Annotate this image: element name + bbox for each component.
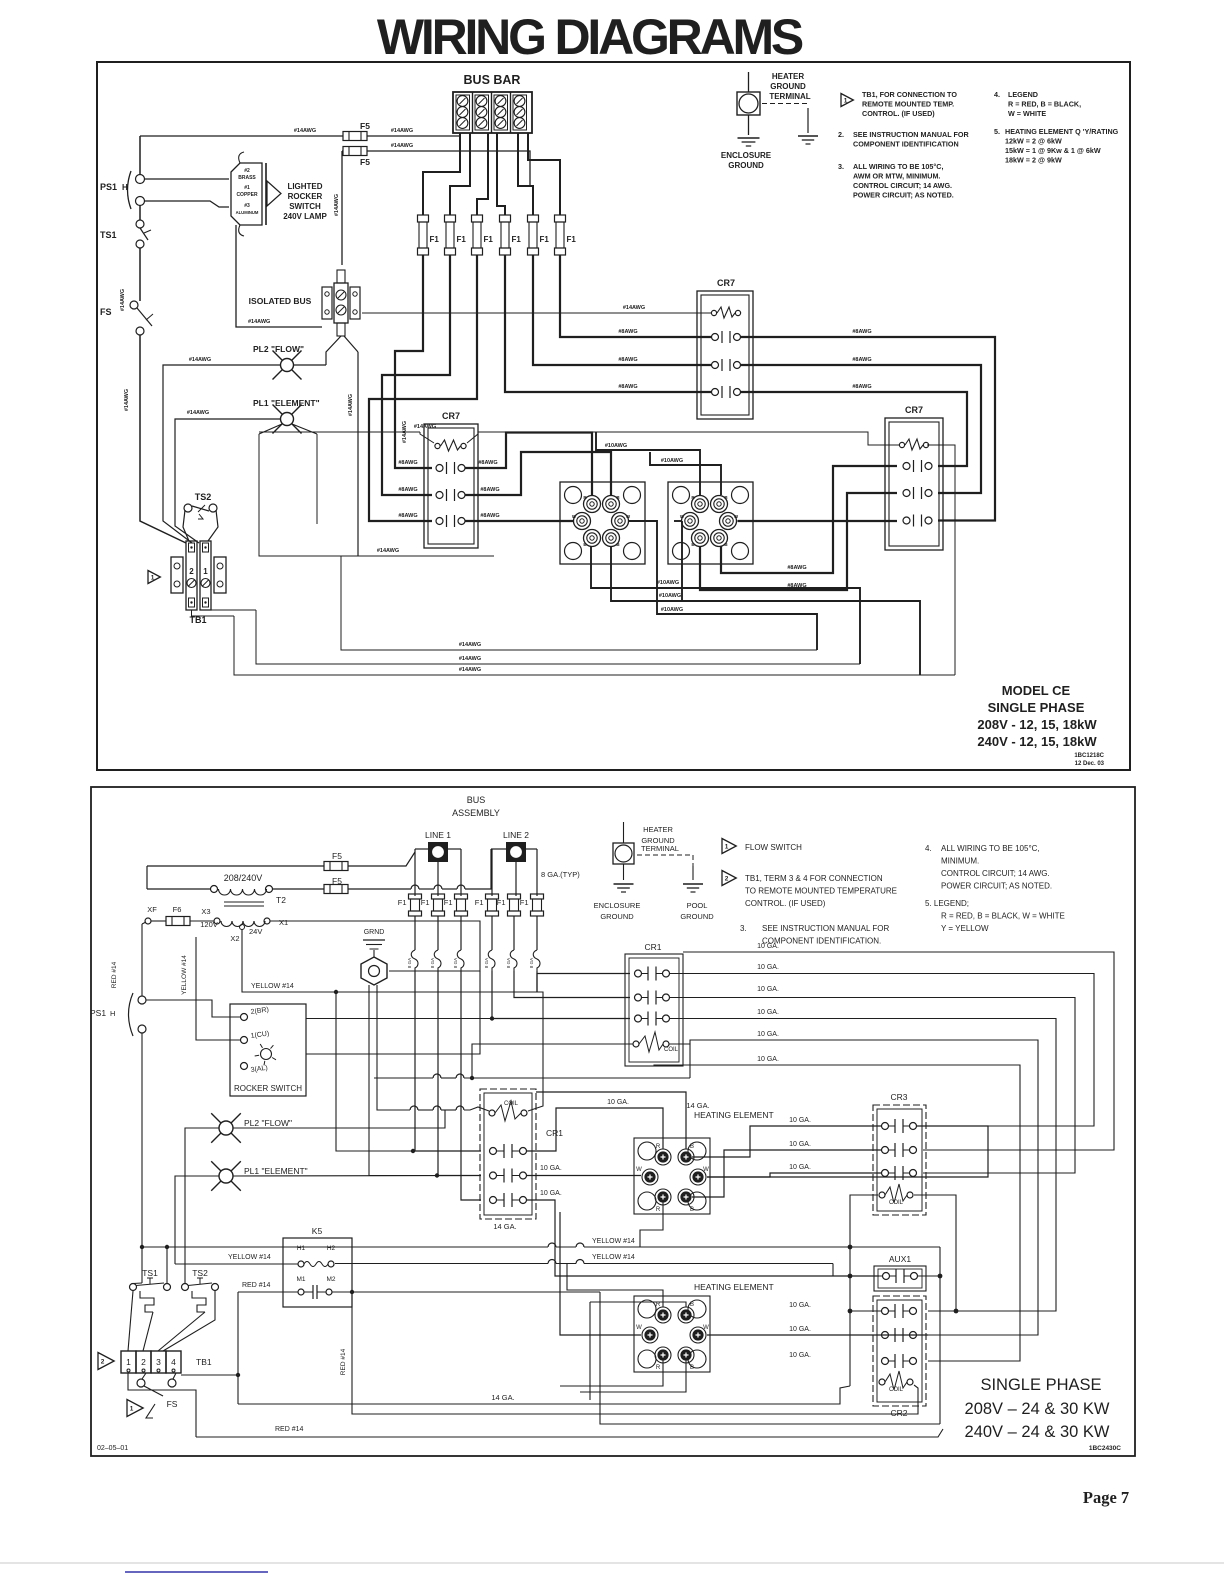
svg-text:#3: #3 (244, 203, 250, 209)
svg-text:#14AWG: #14AWG (120, 289, 126, 311)
svg-text:#14AWG: #14AWG (187, 410, 209, 416)
svg-text:SINGLE PHASE: SINGLE PHASE (980, 1376, 1101, 1394)
svg-text:8 GA.(TYP): 8 GA.(TYP) (541, 870, 580, 879)
thermostat TS1 (100, 220, 151, 248)
wire isolated bus to PL2 branch (326, 336, 358, 365)
dashed wire to pool ground (637, 855, 693, 880)
note 1 text (862, 90, 957, 118)
wire TS1 to FS (120, 248, 140, 311)
fuse F1 bottom-3 (444, 894, 468, 916)
svg-text:TB1, TERM 3 & 4 FOR CONN: TB1, TERM 3 & 4 FOR CONNECTION (745, 874, 883, 883)
svg-text:1: 1 (151, 575, 155, 582)
relay CR7 mid coil (435, 440, 466, 451)
chassis ground GRND (361, 929, 387, 985)
svg-text:W = WHITE: W = WHITE (1008, 109, 1046, 118)
bus bar terminal block (453, 73, 532, 133)
wire GRND to CR1 coil left (377, 985, 489, 1111)
note 4 legend text (994, 90, 1081, 118)
flow switch note triangle (722, 839, 802, 854)
relay CR1 center contact 1 (490, 1144, 527, 1158)
heating element label lower (694, 1282, 774, 1292)
enclosure ground bottom (594, 884, 641, 921)
wire element1 B to CR3 contact1 (692, 1117, 882, 1157)
svg-text:PL1 "ELEMENT": PL1 "ELEMENT" (253, 398, 320, 408)
wire yellow branch to CR1 contact1 (334, 990, 481, 1153)
terminal block TB1 top diagram (171, 541, 226, 610)
drawing number top (1074, 753, 1104, 767)
svg-text:GROUND: GROUND (680, 912, 714, 921)
wire PL1 left (175, 410, 280, 543)
svg-text:R: R (656, 1302, 661, 1308)
svg-text:COIL: COIL (504, 1101, 519, 1107)
svg-text:10 GA.: 10 GA. (607, 1099, 629, 1106)
svg-text:F1: F1 (457, 235, 467, 244)
yellow 14 wire to rocker pin1 (181, 937, 241, 1040)
wire CR7 top contact2 loop right (740, 357, 981, 493)
wire CR7 top contact3 loop right (740, 384, 967, 466)
svg-text:PL2 "FLOW": PL2 "FLOW" (244, 1118, 292, 1128)
svg-text:T2: T2 (276, 895, 286, 905)
rocker switch bottom box (230, 1004, 306, 1096)
thin control run to relay coils (259, 424, 899, 445)
isolated bus block (322, 270, 360, 336)
svg-text:15kW = 1 @ 9Kw & 1 @ 6kW: 15kW = 1 @ 9Kw & 1 @ 6kW (1005, 146, 1101, 155)
wire bus bar to fuse F1-2 (450, 133, 470, 215)
relay CR7 top contact 3 (712, 386, 741, 398)
svg-text:HEATING ELEMENT: HEATING ELEMENT (694, 1282, 774, 1292)
transformer T2 core (224, 895, 286, 906)
svg-text:10 GA.: 10 GA. (757, 986, 779, 993)
svg-text:240V – 24 & 30 KW: 240V – 24 & 30 KW (965, 1423, 1110, 1441)
svg-text:CONTROL CIRCUIT; 14 AWG.: CONTROL CIRCUIT; 14 AWG. (941, 869, 1050, 878)
svg-text:10 GA.: 10 GA. (789, 1302, 811, 1309)
svg-text:1BC1218C: 1BC1218C (1074, 753, 1104, 759)
svg-text:TB1, FOR CONNECTION TO: TB1, FOR CONNECTION TO (862, 90, 957, 99)
svg-text:10 GA.: 10 GA. (757, 1009, 779, 1016)
svg-text:#14AWG: #14AWG (124, 389, 130, 411)
wire element2 bottom B to CR7 right contact1 (721, 466, 897, 573)
svg-text:2.: 2. (838, 130, 844, 139)
lighted rocker switch (231, 152, 281, 236)
svg-text:5.: 5. (994, 127, 1000, 136)
relay CR7 right contact 3 (903, 515, 932, 527)
svg-text:10 GA.: 10 GA. (789, 1326, 811, 1333)
svg-text:10 GA.: 10 GA. (789, 1164, 811, 1171)
svg-text:ALL WIRING TO BE 105°C,: ALL WIRING TO BE 105°C, (853, 162, 943, 171)
svg-text:B: B (690, 1144, 694, 1150)
wire fuse drop 5 to CR1 right contact2 (514, 992, 630, 998)
wire element2 W left riser (674, 521, 682, 601)
relay CR7 right coil (899, 439, 928, 450)
svg-text:F5: F5 (360, 157, 370, 167)
svg-text:14 GA.: 14 GA. (493, 1222, 516, 1231)
wire 10GA run1 (683, 943, 1114, 1150)
fuse F5 bottom lower (324, 876, 348, 894)
svg-text:BRASS: BRASS (238, 175, 256, 181)
fuse F1-2 (445, 215, 467, 255)
wire fuse drop 2 to CR1 center contact2 (438, 992, 481, 1176)
CR1 right coil loop bottom (374, 1044, 690, 1078)
svg-text:R = RED, B = BLACK, W =: R = RED, B = BLACK, W = WHITE (941, 912, 1065, 921)
svg-text:#14AWG: #14AWG (459, 667, 481, 673)
wire FS to TB1 sq4 (173, 1373, 176, 1379)
wire PL2 left (163, 357, 280, 543)
fuse F1 bottom-5 (497, 894, 521, 916)
wire CR7 top contact1 loop right (740, 329, 995, 521)
junction XF (145, 905, 157, 924)
svg-text:F1: F1 (512, 235, 522, 244)
svg-text:W: W (636, 1325, 642, 1331)
wire bottom nested line 2 (256, 610, 860, 664)
wire PL2 bottom left (185, 1128, 219, 1284)
svg-text:SWITCH: SWITCH (289, 202, 321, 211)
wire CR7 mid contact2 to element1 terminal B (465, 452, 611, 495)
svg-text:COMPONENT IDENTIFICATION: COMPONENT IDENTIFICATION (853, 140, 959, 149)
svg-text:#14AWG: #14AWG (334, 194, 340, 216)
svg-text:12kW = 2 @ 6kW: 12kW = 2 @ 6kW (1005, 137, 1062, 146)
wire F5 lower to isolated bus (334, 151, 342, 265)
svg-text:8 GA: 8 GA (430, 958, 435, 968)
svg-text:10 GA.: 10 GA. (540, 1165, 562, 1172)
element2 gauge labels (789, 1302, 811, 1359)
svg-text:FS: FS (167, 1399, 178, 1409)
svg-text:SINGLE PHASE: SINGLE PHASE (988, 700, 1085, 715)
svg-text:CR7: CR7 (442, 411, 460, 421)
svg-text:REMOTE MOUNTED TEMP.: REMOTE MOUNTED TEMP. (862, 100, 954, 109)
yellow wire 2 (335, 1254, 882, 1276)
svg-text:8 GA: 8 GA (407, 958, 412, 968)
wire element2 B feed (590, 1302, 686, 1400)
wire fuse F1-3 to relay CR7 mid contact 3 (369, 255, 477, 521)
isolated bus label (249, 296, 312, 306)
wire element2 W right (707, 1334, 928, 1336)
svg-text:COMPONENT IDENTIFICATION.: COMPONENT IDENTIFICATION. (762, 937, 881, 946)
heating element block upper (634, 1138, 710, 1214)
TB1 note triangle (722, 871, 897, 909)
relay CR7 mid contact 3 (436, 515, 465, 527)
svg-text:#8AWG: #8AWG (398, 460, 417, 466)
page title (377, 9, 803, 65)
svg-text:F1: F1 (540, 235, 550, 244)
svg-text:BUS: BUS (467, 795, 486, 805)
note 2 text (838, 130, 969, 149)
relay CR2 contact 3 (882, 1354, 917, 1368)
relay CR3 coil (879, 1184, 913, 1206)
rocker switch label (283, 182, 327, 221)
wire CR1 center top to element1 R (536, 1092, 686, 1149)
yellow wire into K5 H1 (175, 1254, 298, 1264)
svg-text:TS2: TS2 (195, 492, 212, 502)
fuse F1-5 (528, 215, 550, 255)
svg-text:FLOW SWITCH: FLOW SWITCH (745, 843, 802, 852)
relay CR3 contact 2 (882, 1143, 917, 1157)
wire bottom nested line 3 (234, 616, 955, 675)
svg-text:X2: X2 (230, 934, 239, 943)
relay CR1 center contact 2 (490, 1169, 527, 1183)
triangle flag 1 at TB1 (148, 571, 160, 584)
svg-text:#14AWG: #14AWG (414, 424, 436, 430)
svg-text:208/240V: 208/240V (224, 873, 263, 883)
svg-text:MODEL CE: MODEL CE (1002, 683, 1071, 698)
svg-text:W: W (703, 1167, 709, 1173)
svg-text:PS1: PS1 (90, 1008, 106, 1018)
svg-text:LINE 2: LINE 2 (503, 830, 529, 840)
relay CR2 box (873, 1296, 926, 1418)
note 3 text (838, 162, 954, 200)
svg-text:ENCLOSURE: ENCLOSURE (721, 151, 772, 160)
relay CR1 right box (625, 942, 683, 1066)
svg-text:#14AWG: #14AWG (377, 548, 399, 554)
svg-text:2: 2 (189, 567, 194, 576)
svg-text:F1: F1 (520, 898, 529, 907)
svg-text:#10AWG: #10AWG (661, 458, 683, 464)
date code bottom left (97, 1445, 128, 1452)
wire incoming lower 208/240 (147, 849, 491, 889)
pilot lamp PL1 ELEMENT (253, 398, 320, 434)
svg-text:TB1: TB1 (196, 1357, 212, 1367)
svg-text:#14AWG: #14AWG (459, 656, 481, 662)
wire fuse F1-6 to relay CR7 top contact 1 (560, 255, 712, 337)
svg-text:10 GA.: 10 GA. (789, 1352, 811, 1359)
svg-text:ASSEMBLY: ASSEMBLY (452, 808, 500, 818)
svg-text:HEATING ELEMENT Q 'Y/RATING: HEATING ELEMENT Q 'Y/RATING (1005, 127, 1119, 136)
fuse F1-1 (418, 215, 440, 255)
red 14 bottom run (196, 1426, 943, 1437)
svg-text:#8AWG: #8AWG (618, 329, 637, 335)
svg-text:#14AWG: #14AWG (459, 642, 481, 648)
top diagram frame (97, 62, 1130, 770)
svg-text:AWM OR MTW, MINIMUM.: AWM OR MTW, MINIMUM. (853, 172, 940, 181)
wire fuse F1 bottom-4 down with splice (484, 916, 495, 992)
svg-text:8 GA: 8 GA (529, 958, 534, 968)
wire fuse F1 bottom-5 down with splice (506, 916, 517, 992)
svg-text:POOL: POOL (687, 901, 708, 910)
svg-text:10 GA.: 10 GA. (789, 1141, 811, 1148)
K5 contact M1 M2 (296, 1276, 335, 1299)
svg-text:POWER CIRCUIT; AS NOTED.: POWER CIRCUIT; AS NOTED. (853, 191, 954, 200)
svg-text:F1: F1 (421, 898, 430, 907)
svg-text:1BC2430C: 1BC2430C (1089, 1445, 1121, 1452)
TB1 label (189, 615, 206, 625)
svg-text:LEGEND: LEGEND (1008, 90, 1038, 99)
wire element1 bottom B to CR3 contact2 (692, 1141, 882, 1197)
svg-text:COIL: COIL (889, 1200, 904, 1206)
wire fuse drop 3 to CR1 center contact3 (461, 992, 481, 1200)
svg-text:LINE 1: LINE 1 (425, 830, 451, 840)
svg-text:POWER CIRCUIT; AS NOTED.: POWER CIRCUIT; AS NOTED. (941, 882, 1052, 891)
svg-text:F5: F5 (360, 121, 370, 131)
svg-text:CR7: CR7 (905, 405, 923, 415)
wire PL2 bottom right to CR1 coil (233, 1110, 445, 1128)
wire fuse F1 bottom-3 down with splice (453, 916, 464, 992)
wire top run with fuse F5 upper (140, 128, 460, 136)
wire FS down left bundle (124, 335, 186, 543)
relay CR7 top coil (711, 307, 740, 318)
relay CR3 box (873, 1092, 926, 1215)
svg-text:R = RED, B = BLACK,: R = RED, B = BLACK, (1008, 100, 1081, 109)
svg-text:10 GA.: 10 GA. (757, 1056, 779, 1063)
svg-text:#10AWG: #10AWG (657, 580, 679, 586)
svg-text:WIRING DIAGRAMS: WIRING DIAGRAMS (377, 9, 803, 65)
svg-text:#8AWG: #8AWG (852, 357, 871, 363)
svg-text:#8AWG: #8AWG (398, 487, 417, 493)
svg-text:YELLOW #14: YELLOW #14 (592, 1238, 635, 1245)
relay CR3 contact 3 (882, 1166, 917, 1180)
red wire into K5 M1 (238, 1282, 298, 1404)
svg-text:YELLOW #14: YELLOW #14 (181, 955, 188, 995)
svg-text:HEATER: HEATER (772, 72, 805, 81)
AUX1 contact (883, 1269, 918, 1283)
svg-text:#8AWG: #8AWG (787, 565, 806, 571)
svg-text:ENCLOSURE: ENCLOSURE (594, 901, 641, 910)
svg-text:SEE INSTRUCTION MANUAL FOR: SEE INSTRUCTION MANUAL FOR (762, 924, 889, 933)
svg-text:MINIMUM.: MINIMUM. (941, 857, 979, 866)
wire PS1 lower to rocker switch (145, 201, 230, 207)
wire PS1 to TS1 (139, 206, 141, 221)
wire rocker lamp to ground loop (306, 971, 480, 1054)
fuse F1 bottom-6 (520, 894, 544, 916)
CR1 right 14 GA label (686, 1101, 709, 1110)
svg-text:F1: F1 (444, 898, 453, 907)
CR1 right coil left wire (470, 1044, 633, 1080)
wire labels at CR7 top left (618, 329, 637, 390)
fuse F1-4 (500, 215, 522, 255)
svg-text:F1: F1 (484, 235, 494, 244)
svg-text:F1: F1 (475, 898, 484, 907)
single phase text bottom (965, 1376, 1110, 1441)
svg-text:GRND: GRND (364, 929, 385, 936)
drawing number bottom (1089, 1445, 1121, 1452)
pool ground symbol (680, 884, 714, 921)
wire PS1 bottom down (141, 1033, 143, 1283)
wire bus bar to fuse F1-3 (477, 133, 488, 215)
wire CR1 center contact2 to element1 W (527, 1175, 642, 1177)
wire 10GA run3 (670, 986, 1076, 1173)
svg-text:ROCKER SWITCH: ROCKER SWITCH (234, 1084, 302, 1093)
svg-text:#14AWG: #14AWG (391, 143, 413, 149)
wire bus bar to fuse F1-4 (497, 133, 505, 215)
svg-text:PL1 "ELEMENT": PL1 "ELEMENT" (244, 1166, 308, 1176)
wire incoming top 208/240 (147, 852, 415, 889)
relay CR1 right coil (633, 1032, 679, 1053)
wire TB1 stems to nested risers (192, 610, 257, 616)
svg-text:CONTROL CIRCUIT; 14 AWG.: CONTROL CIRCUIT; 14 AWG. (853, 181, 952, 190)
heating element block lower (634, 1296, 710, 1372)
yellow wire 1 (140, 1238, 943, 1424)
svg-text:14 GA.: 14 GA. (491, 1393, 514, 1402)
svg-text:TS1: TS1 (100, 230, 117, 240)
wire PS1 up to top run (139, 136, 141, 175)
enclosure ground symbol (721, 138, 772, 170)
CR7 mid left wire labels (398, 460, 417, 519)
svg-text:4.: 4. (994, 90, 1000, 99)
wire PL1 into control box (259, 424, 317, 434)
svg-text:X1: X1 (279, 918, 288, 927)
fuse F5 lower (343, 147, 370, 168)
heating element block 2 (668, 482, 753, 564)
svg-text:1: 1 (203, 567, 208, 576)
relay CR1 right contact 2 (635, 991, 670, 1005)
source 208/240V winding (211, 873, 273, 895)
wire CR7 right coil return (927, 445, 955, 675)
svg-text:8 GA: 8 GA (506, 958, 511, 968)
svg-text:M1: M1 (296, 1276, 305, 1283)
svg-text:ALUMINUM: ALUMINUM (236, 210, 259, 215)
svg-text:#8AWG: #8AWG (480, 487, 499, 493)
svg-text:#8AWG: #8AWG (852, 329, 871, 335)
CR1 center gauge labels (493, 1165, 562, 1231)
wire element2 W left (560, 1212, 641, 1335)
CR3 coil left wire to control bus (848, 1195, 878, 1386)
svg-text:F1: F1 (567, 235, 577, 244)
svg-text:COPPER: COPPER (236, 192, 258, 198)
wire feed element2 terminal B (650, 452, 721, 495)
flow switch FS bottom (137, 1379, 178, 1418)
svg-text:RED #14: RED #14 (111, 961, 118, 988)
svg-text:#8AWG: #8AWG (852, 384, 871, 390)
heating element label upper (694, 1110, 774, 1120)
relay CR2 coil (879, 1371, 913, 1393)
heater ground terminal label (769, 72, 810, 101)
svg-text:2: 2 (101, 1359, 105, 1366)
wire PL1 bottom left (175, 1176, 219, 1264)
fuse F6 (166, 905, 190, 926)
svg-text:W: W (636, 1167, 642, 1173)
svg-text:#2: #2 (244, 168, 250, 174)
pilot lamp PL2 bottom (211, 1113, 292, 1143)
svg-text:B: B (690, 1207, 694, 1213)
svg-text:24V: 24V (249, 927, 262, 936)
note 5 bottom (925, 899, 1065, 933)
svg-text:COIL: COIL (664, 1047, 679, 1053)
wire fuse drop 4 to CR1 right contact3 (492, 992, 630, 1019)
svg-text:YELLOW #14: YELLOW #14 (592, 1254, 635, 1261)
wire control to CR7 top coil (362, 305, 712, 313)
svg-text:GROUND: GROUND (728, 161, 764, 170)
LINE 1 terminal (425, 830, 451, 861)
wire 14 GA run to CR2 coil (238, 1386, 850, 1404)
svg-text:YELLOW #14: YELLOW #14 (251, 983, 294, 990)
svg-text:#14AWG: #14AWG (348, 394, 354, 416)
wire element2 R feed (567, 1263, 663, 1307)
thermostat TS2 top (184, 492, 217, 519)
svg-text:3: 3 (156, 1357, 161, 1367)
wire fuse F1 bottom-2 down with splice (430, 916, 441, 992)
svg-text:#8AWG: #8AWG (398, 513, 417, 519)
wire element2 bottom B2 to CR7 right contact2 (700, 493, 897, 590)
svg-text:CR1: CR1 (644, 942, 661, 952)
svg-text:10 GA.: 10 GA. (540, 1190, 562, 1197)
terminal block TB1 bottom (121, 1351, 212, 1373)
scan artifact blue underline (125, 1571, 268, 1573)
svg-text:YELLOW #14: YELLOW #14 (228, 1254, 271, 1261)
transformer T2 secondary (200, 907, 288, 943)
relay CR1 right contact 3 (635, 1012, 670, 1026)
svg-text:#14AWG: #14AWG (402, 421, 408, 443)
svg-text:H: H (110, 1009, 115, 1018)
remote earth ground symbol (798, 136, 818, 144)
bottom diagram frame (91, 787, 1135, 1456)
dashed wire to remote ground (762, 104, 808, 134)
svg-text:Page 7: Page 7 (1083, 1488, 1129, 1507)
wire TB1 to FS (142, 1373, 146, 1379)
wire element1 R bottom down (640, 1201, 663, 1247)
svg-text:02–05–01: 02–05–01 (97, 1445, 128, 1452)
svg-text:240V - 12, 15, 18kW: 240V - 12, 15, 18kW (977, 734, 1097, 749)
svg-text:#10AWG: #10AWG (605, 443, 627, 449)
svg-text:#10AWG: #10AWG (659, 593, 681, 599)
heater ground terminal (737, 72, 760, 135)
